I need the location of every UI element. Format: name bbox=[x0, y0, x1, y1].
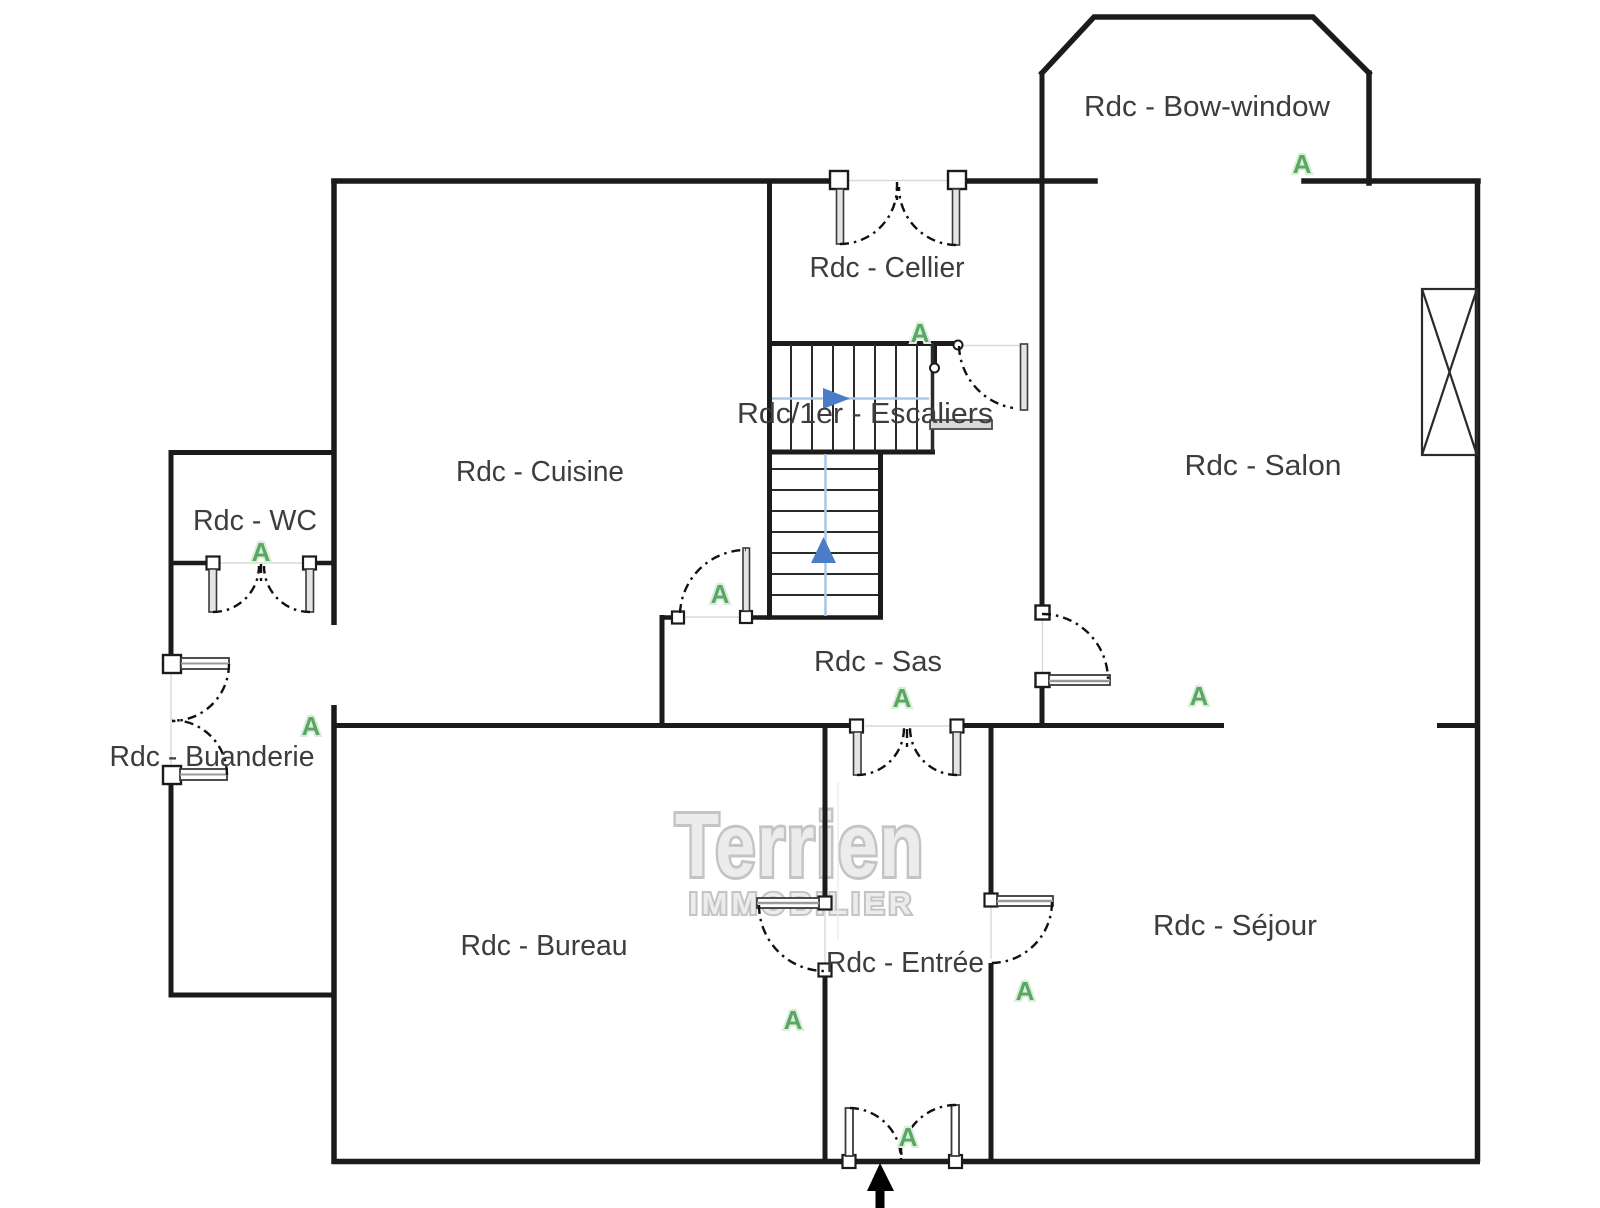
door stairs bottom bbox=[672, 548, 752, 624]
bow-window walls bbox=[1042, 17, 1369, 183]
wall entree right x=991 bbox=[989, 723, 994, 1163]
wire section light lines at door openings bbox=[171, 181, 1043, 1162]
door salon bbox=[1036, 606, 1111, 688]
wall WC bottom y=563 bbox=[169, 561, 336, 566]
stairs upper flight treads bbox=[791, 344, 917, 451]
wall stairs bottom y=617.5 bbox=[767, 615, 883, 620]
svg-text:Rdc - Buanderie: Rdc - Buanderie bbox=[110, 741, 315, 773]
wall stairs mid y=452 bbox=[767, 450, 935, 455]
door entrance double bbox=[843, 1105, 963, 1168]
wall buanderie left x=171 bbox=[169, 450, 174, 997]
svg-text:Rdc - Entrée: Rdc - Entrée bbox=[826, 947, 984, 979]
wall stub stairs landing x=934.5 bbox=[932, 343, 937, 366]
svg-text:Terrien: Terrien bbox=[675, 796, 925, 896]
svg-text:Rdc - WC: Rdc - WC bbox=[193, 505, 317, 537]
svg-text:Rdc - Bow-window: Rdc - Bow-window bbox=[1084, 91, 1331, 123]
svg-text:Rdc - Salon: Rdc - Salon bbox=[1185, 450, 1342, 482]
svg-text:A: A bbox=[252, 537, 271, 567]
svg-text:A: A bbox=[1293, 149, 1312, 179]
svg-text:A: A bbox=[784, 1005, 803, 1035]
wall left lower x=334 bbox=[331, 705, 337, 1164]
stairs lower flight treads bbox=[772, 469, 878, 595]
stairs upper flight right edge x=932.5 bbox=[931, 343, 935, 452]
svg-text:Rdc/1er - Escaliers: Rdc/1er - Escaliers bbox=[737, 398, 993, 430]
door stairs top landing bbox=[930, 341, 1028, 411]
wall stairs top y=343.5 bbox=[767, 341, 957, 346]
stairs landing sill bar bbox=[930, 420, 992, 429]
door buanderie upper bbox=[163, 655, 229, 721]
svg-text:A: A bbox=[1016, 976, 1035, 1006]
wall WC top y=452.5 bbox=[169, 450, 337, 455]
svg-text:Rdc - Bureau: Rdc - Bureau bbox=[461, 930, 628, 962]
watermark Terrien bbox=[675, 796, 925, 921]
chimney hatch box salon bbox=[1422, 289, 1477, 455]
wall stairs left x=769.5 bbox=[767, 181, 772, 620]
svg-text:A: A bbox=[911, 318, 930, 348]
svg-text:A: A bbox=[302, 711, 321, 741]
svg-text:Rdc - Cellier: Rdc - Cellier bbox=[810, 252, 965, 284]
door sejour bbox=[985, 894, 1054, 964]
svg-text:A: A bbox=[1190, 681, 1209, 711]
wall salon left x=1042 bbox=[1040, 71, 1045, 728]
wall right exterior x=1477.5 bbox=[1475, 179, 1481, 1163]
entrance arrow bbox=[867, 1163, 894, 1208]
wall kitchen left x=334 bbox=[331, 179, 337, 626]
door sas double bbox=[850, 720, 964, 776]
stairs blue guide line horizontal bbox=[772, 397, 929, 400]
wall buanderie bottom y=995 bbox=[169, 993, 337, 998]
svg-text:A: A bbox=[899, 1122, 918, 1152]
door cellier double bbox=[830, 171, 966, 245]
wall sas door y=617.5 bbox=[660, 615, 770, 620]
door buanderie lower bbox=[163, 720, 227, 784]
door WC double bbox=[207, 557, 317, 613]
wall stairs lower right x=880.5 bbox=[878, 452, 883, 620]
wall entree left x=825 bbox=[823, 723, 828, 1163]
svg-text:Rdc - Sas: Rdc - Sas bbox=[814, 646, 942, 678]
door bureau bbox=[757, 897, 832, 977]
svg-text:A: A bbox=[893, 683, 912, 713]
svg-text:Rdc - Séjour: Rdc - Séjour bbox=[1153, 910, 1317, 942]
stairs blue arrow up bbox=[811, 537, 836, 563]
svg-text:A: A bbox=[711, 579, 730, 609]
wall top exterior y=181 bbox=[334, 178, 1478, 184]
svg-text:Rdc - Cuisine: Rdc - Cuisine bbox=[456, 456, 624, 488]
wall corridor x=662 bbox=[660, 615, 665, 728]
wall bottom exterior y=1161.5 bbox=[332, 1159, 1481, 1165]
stairs blue arrow right bbox=[823, 388, 850, 409]
wall mid horizontal y=725.5 bbox=[334, 723, 1478, 728]
stairs blue guide line vertical bbox=[824, 454, 827, 616]
